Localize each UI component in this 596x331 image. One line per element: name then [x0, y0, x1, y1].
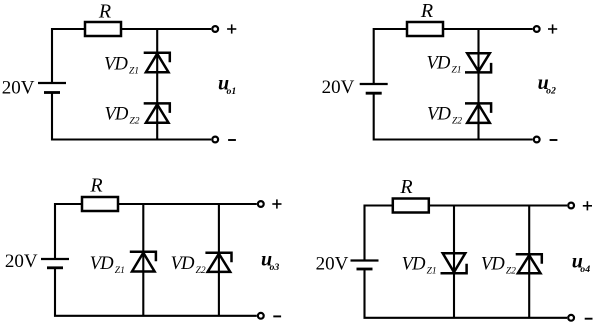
svg-text:20V: 20V: [2, 78, 35, 99]
label − (circuit 2): [550, 139, 558, 141]
svg-text:Z2: Z2: [506, 267, 516, 277]
circuit 3 (bottom-left): [5, 175, 282, 319]
svg-text:VD: VD: [104, 55, 129, 75]
wire: c4 left rail top + top-left segment: [365, 206, 393, 260]
circuit 4 (bottom-right): [316, 176, 593, 321]
svg-text:o3: o3: [270, 262, 280, 273]
wire: c1 zener branch vertical: [156, 29, 158, 140]
wire: c4 top wire resistor to + terminal: [429, 204, 567, 206]
label u_o1: [218, 73, 236, 98]
wire: c3 left rail top + top-left segment: [55, 204, 82, 258]
terminal + output (circuit 3): [258, 201, 264, 207]
label − (circuit 1): [228, 139, 236, 141]
svg-text:VD: VD: [427, 104, 452, 124]
svg-text:Z1: Z1: [427, 267, 437, 277]
resistor R (circuit 4): [393, 199, 429, 213]
svg-text:Z2: Z2: [196, 266, 206, 276]
label VD_Z2 (circuit 1): [105, 104, 140, 126]
wire: c1 left rail top + top-left segment: [52, 29, 85, 82]
wire: c4 left rail bottom + bottom wire: [365, 269, 568, 318]
terminal + output (circuit 2): [534, 26, 540, 32]
svg-text:VD: VD: [90, 254, 115, 274]
battery GB1 20V source: [38, 83, 66, 93]
battery GB2 20V source: [360, 84, 388, 93]
svg-text:Z1: Z1: [115, 266, 125, 276]
label VD_Z1 (circuit 3): [90, 254, 125, 276]
label + (circuit 4): [583, 201, 592, 210]
terminal − output (circuit 1): [212, 137, 218, 143]
wire: c2 zener branch vertical: [477, 29, 479, 140]
wire: c2 top wire resistor to + terminal: [443, 28, 533, 30]
svg-text:20V: 20V: [5, 251, 38, 272]
wire: c2 left rail top + top-left segment: [374, 29, 407, 83]
zener diode VD_Z2 (circuit 1): [144, 103, 170, 122]
svg-text:Z2: Z2: [452, 116, 462, 126]
label VD_Z2 (circuit 2): [427, 104, 462, 126]
svg-text:VD: VD: [105, 104, 130, 124]
label VD_Z1 (circuit 4): [402, 255, 437, 277]
terminal + output (circuit 4): [568, 203, 574, 209]
svg-text:VD: VD: [171, 254, 196, 274]
label VD_Z1 (circuit 1): [104, 55, 139, 77]
zener diode VD_Z1 (circuit 3): [130, 252, 156, 272]
circuit 2 (top-right): [322, 0, 558, 142]
svg-text:R: R: [399, 176, 412, 198]
resistor R (circuit 3): [82, 197, 118, 211]
battery GB4 20V source: [351, 261, 379, 270]
wire: c1 top wire resistor to + terminal: [121, 28, 211, 30]
svg-text:o2: o2: [546, 85, 556, 96]
svg-text:Z1: Z1: [129, 67, 139, 77]
wire: c3 top wire resistor to + terminal: [118, 203, 257, 205]
terminal − output (circuit 2): [534, 137, 540, 143]
terminal − output (circuit 3): [258, 313, 264, 319]
svg-text:VD: VD: [427, 54, 452, 74]
svg-text:R: R: [98, 1, 111, 23]
wire: c2 left rail bottom + bottom wire: [374, 93, 533, 139]
label + (circuit 3): [272, 199, 281, 208]
svg-text:Z1: Z1: [452, 66, 462, 76]
zener diode VD_Z2 (circuit 3): [205, 253, 231, 272]
label + (circuit 2): [548, 24, 557, 33]
svg-text:Z2: Z2: [130, 116, 140, 126]
label − (circuit 4): [585, 318, 593, 320]
svg-text:20V: 20V: [322, 77, 355, 98]
resistor R (circuit 1): [85, 22, 121, 36]
label VD_Z2 (circuit 4): [481, 255, 516, 277]
terminal + output (circuit 1): [212, 26, 218, 32]
svg-text:VD: VD: [402, 255, 427, 275]
wire: c3 zener branch 2 vertical: [218, 204, 220, 316]
label u_o4: [572, 250, 590, 275]
zener diode VD_Z2 (circuit 2): [465, 103, 491, 123]
zener diode VD_Z1 (circuit 1): [144, 53, 170, 72]
label + (circuit 1): [227, 24, 236, 33]
svg-text:R: R: [89, 175, 102, 197]
battery GB3 20V source: [41, 259, 69, 268]
zener diode VD_Z2 (circuit 4): [516, 254, 542, 273]
svg-text:20V: 20V: [316, 253, 349, 274]
terminal − output (circuit 4): [568, 315, 574, 321]
wire: c4 zener branch 1 vertical: [453, 206, 455, 318]
circuit 1 (top-left): [2, 1, 237, 143]
label VD_Z2 (circuit 3): [171, 254, 206, 276]
svg-text:R: R: [420, 0, 433, 22]
label u_o3: [261, 248, 279, 273]
label − (circuit 3): [273, 315, 281, 317]
label VD_Z1 (circuit 2): [427, 54, 462, 76]
wire: c1 left rail bottom + bottom wire: [52, 93, 211, 140]
svg-text:o1: o1: [227, 86, 237, 97]
resistor R (circuit 2): [407, 22, 443, 36]
zener diode VD_Z1 (circuit 2): [465, 53, 491, 72]
svg-text:VD: VD: [481, 255, 506, 275]
wire: c3 left rail bottom + bottom wire: [55, 268, 257, 316]
wire: c3 zener branch 1 vertical: [142, 204, 144, 316]
wire: c4 zener branch 2 vertical: [528, 206, 530, 318]
zener diode VD_Z1 (circuit 4): [441, 253, 467, 273]
label u_o2: [538, 72, 556, 97]
svg-text:o4: o4: [580, 264, 590, 275]
